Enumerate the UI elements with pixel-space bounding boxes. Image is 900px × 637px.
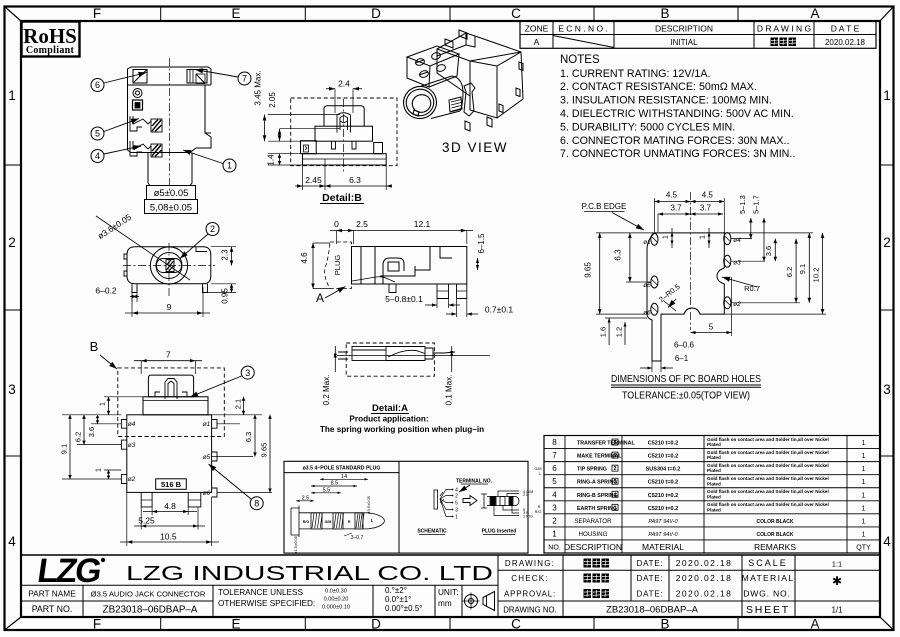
svg-text:PA9T 94V-0: PA9T 94V-0: [648, 532, 678, 538]
detail A spring drawing: [337, 347, 490, 361]
svg-text:L: L: [371, 518, 374, 523]
svg-text:ø2: ø2: [128, 476, 136, 483]
balloon 2 round view: [206, 223, 219, 236]
front view spring contact lower: [130, 141, 162, 157]
svg-text:mm: mm: [438, 599, 452, 608]
basic dim box dia 5: [147, 186, 196, 200]
view B left dim chain: [100, 396, 121, 398]
svg-text:D: D: [371, 617, 381, 632]
svg-text:A: A: [810, 617, 819, 632]
svg-text:L: L: [539, 472, 541, 476]
detail B centerline: [343, 99, 345, 172]
svg-text:DESCRIPTION: DESCRIPTION: [655, 23, 713, 33]
detail B mid body: [315, 126, 373, 141]
svg-text:R: R: [538, 505, 541, 509]
svg-text:8: 8: [552, 438, 557, 447]
plug drawing body: [291, 506, 384, 538]
schematic fork lines: [440, 490, 452, 517]
svg-text:G/M: G/M: [325, 520, 332, 524]
svg-text:PLUG: PLUG: [333, 255, 342, 276]
svg-text:1: 1: [862, 453, 866, 460]
schematic terminal dots and numbers: [452, 489, 454, 491]
svg-text:2. CONTACT RESISTANCE: 50m: 2. CONTACT RESISTANCE: 50mΩ MAX.: [560, 81, 757, 93]
svg-text:8: 8: [254, 498, 259, 508]
svg-text:3.6: 3.6: [87, 427, 96, 437]
svg-text:6.3: 6.3: [614, 249, 623, 261]
pcb board contour: [647, 233, 724, 361]
svg-text:APPROVAL:: APPROVAL:: [504, 590, 556, 599]
svg-text:2.45: 2.45: [305, 175, 322, 185]
svg-text:HOUSING: HOUSING: [579, 531, 608, 538]
svg-text:UNIT:: UNIT:: [438, 588, 458, 597]
svg-text:ø3: ø3: [733, 260, 741, 267]
side view spring detail inside: [352, 277, 395, 282]
svg-text:1: 1: [862, 440, 866, 447]
svg-text:C: C: [511, 617, 521, 632]
svg-text:5: 5: [455, 501, 458, 507]
front view centerline: [169, 58, 171, 192]
svg-text:1: 1: [862, 492, 866, 499]
svg-text:1: 1: [614, 505, 617, 511]
svg-text:1: 1: [8, 88, 16, 103]
svg-text:RING-A SPRING: RING-A SPRING: [577, 480, 617, 486]
front view top-right latch block: [187, 70, 207, 84]
svg-text:SCHEMATIC: SCHEMATIC: [417, 529, 447, 535]
svg-text:ø3.5 4–POLE STANDARD PLUG: ø3.5 4–POLE STANDARD PLUG: [303, 466, 381, 472]
svg-text:516 B: 516 B: [161, 480, 182, 489]
svg-text:2.05: 2.05: [268, 92, 277, 108]
svg-text:3. INSULATION RESISTANCE:: 3. INSULATION RESISTANCE: 100MΩ MIN.: [560, 95, 772, 107]
svg-text:7: 7: [552, 451, 557, 460]
svg-text:ø1.5±0.05: ø1.5±0.05: [293, 535, 298, 554]
svg-text:2020.02.18: 2020.02.18: [676, 558, 733, 568]
svg-text:5–1.3: 5–1.3: [738, 195, 747, 214]
svg-text:DATE:: DATE:: [637, 574, 664, 583]
svg-text:3: 3: [455, 508, 458, 514]
svg-text:1: 1: [98, 402, 107, 406]
view B dashed boundary: [118, 368, 225, 437]
title block frame: [21, 554, 880, 556]
svg-text:6: 6: [614, 453, 617, 459]
svg-text:The spring working position: The spring working position when plug–in: [320, 425, 484, 434]
svg-text:Plated: Plated: [707, 481, 721, 486]
parts list table: [544, 436, 880, 554]
round view right step: [196, 247, 207, 252]
svg-text:2.1: 2.1: [234, 399, 243, 409]
svg-text:DWG. NO.: DWG. NO.: [743, 589, 790, 599]
svg-text:ø5±0.05: ø5±0.05: [154, 188, 189, 199]
svg-text:1:1: 1:1: [832, 560, 842, 569]
svg-text:0.°±2°: 0.°±2°: [385, 586, 407, 595]
svg-text:ø3.5±0.05: ø3.5±0.05: [366, 495, 371, 514]
svg-text:E: E: [231, 617, 240, 632]
svg-text:B: B: [90, 339, 99, 354]
svg-text:C5210 t=0.2: C5210 t=0.2: [648, 493, 678, 499]
pcb pad 4: [724, 233, 731, 245]
svg-text:R: R: [348, 520, 351, 524]
view B bottom legs: [141, 492, 201, 507]
svg-text:C5210 t=0.2: C5210 t=0.2: [648, 506, 678, 512]
svg-text:ø6: ø6: [643, 310, 651, 317]
svg-text:4: 4: [95, 151, 100, 161]
pcb pad 2: [724, 297, 731, 309]
svg-text:1 R/G: 1 R/G: [523, 514, 533, 518]
svg-text:3D VIEW: 3D VIEW: [442, 140, 508, 155]
plug segment hatches: [312, 514, 322, 529]
round view legs: [132, 284, 208, 293]
plug spec box frame: [284, 461, 528, 553]
svg-text:1.6: 1.6: [599, 327, 608, 337]
svg-text:7: 7: [242, 74, 247, 84]
side view feet: [389, 284, 467, 299]
svg-text:Detail:A: Detail:A: [372, 403, 408, 414]
svg-text:1/1: 1/1: [831, 606, 843, 615]
zone tick marks top: [160, 7, 162, 22]
svg-text:TOLERANCE:±0.05(TOP VIEW): TOLERANCE:±0.05(TOP VIEW): [622, 391, 750, 402]
svg-text:9.1: 9.1: [798, 264, 807, 274]
svg-text:SCALE: SCALE: [748, 558, 788, 568]
svg-text:1: 1: [94, 468, 103, 472]
svg-text:6–1: 6–1: [675, 354, 689, 363]
svg-text:R/G: R/G: [535, 510, 542, 514]
svg-text:DRAWING:: DRAWING:: [505, 559, 555, 568]
3D legs: [465, 62, 523, 131]
view B top part: [148, 375, 193, 397]
corner diagonals: [5, 7, 22, 22]
svg-text:6–0.2: 6–0.2: [95, 286, 117, 296]
drafter names: [584, 559, 592, 568]
pcb bottom dim 5: [690, 314, 692, 336]
svg-text:3.45 Max.: 3.45 Max.: [254, 70, 263, 105]
svg-text:COLOR BLACK: COLOR BLACK: [757, 519, 794, 525]
svg-text:C5210 t=0.2: C5210 t=0.2: [648, 480, 678, 486]
svg-text:0.7±0.1: 0.7±0.1: [485, 305, 514, 315]
pcb centerline vertical: [690, 192, 692, 330]
svg-text:1: 1: [227, 161, 232, 171]
svg-text:D: D: [371, 6, 381, 21]
svg-text:ø2: ø2: [733, 301, 741, 308]
svg-text:Plated: Plated: [707, 494, 721, 499]
svg-text:5,08±0.05: 5,08±0.05: [150, 203, 192, 214]
svg-text:1: 1: [862, 505, 866, 512]
svg-text:A: A: [534, 37, 540, 47]
detail B left block: [301, 141, 317, 154]
balloon 1: [223, 159, 236, 172]
svg-text:Plated: Plated: [707, 468, 721, 473]
pcb bottom-left slot dims 1.6 1.2: [605, 317, 647, 319]
schematic contact bar: [434, 490, 438, 509]
svg-text:3: 3: [552, 503, 557, 512]
pcb left dims 9.65 6.3: [596, 232, 654, 234]
svg-text:3.7: 3.7: [670, 204, 682, 213]
svg-text:MATERIAL: MATERIAL: [642, 542, 684, 552]
detail A right dim 0.1: [451, 346, 453, 372]
svg-text:7: 7: [166, 350, 171, 360]
svg-text:6. CONNECTOR MATING FORCES:: 6. CONNECTOR MATING FORCES: 30N MAX..: [560, 135, 789, 147]
plug inserted hatches: [491, 497, 513, 505]
detail A dashed boundary: [346, 343, 434, 376]
svg-text:4.8: 4.8: [164, 501, 176, 511]
svg-text:0.0±0.30: 0.0±0.30: [325, 589, 347, 595]
RoHS compliant logo box: [22, 22, 80, 57]
pcb pad 5: [651, 276, 658, 288]
svg-text:6.2: 6.2: [74, 432, 83, 442]
svg-text:DIMENSIONS OF PC BOARD HOL: DIMENSIONS OF PC BOARD HOLES: [611, 374, 761, 385]
svg-text:Gold flash on contact area: Gold flash on contact area and Solder ti…: [707, 450, 829, 455]
svg-text:2: 2: [614, 466, 617, 472]
svg-text:5–1.7: 5–1.7: [751, 195, 760, 214]
svg-text:TRANSFER TERMINAL: TRANSFER TERMINAL: [577, 441, 635, 447]
svg-text:9.65: 9.65: [584, 262, 593, 278]
svg-text:ø4: ø4: [128, 421, 136, 428]
svg-text:Plated: Plated: [707, 442, 721, 447]
svg-text:LZG: LZG: [35, 552, 103, 590]
svg-text:2.4: 2.4: [338, 79, 350, 89]
svg-text:7. CONNECTOR UNMATING FORCE: 7. CONNECTOR UNMATING FORCES: 3N MIN..: [560, 148, 795, 160]
front view spring contact upper hatch: [152, 120, 162, 132]
svg-text:D A T E: D A T E: [831, 23, 860, 33]
svg-text:ZB23018–06DBAP–A: ZB23018–06DBAP–A: [103, 605, 198, 616]
svg-text:12.1: 12.1: [414, 219, 431, 229]
svg-text:B: B: [660, 6, 669, 21]
svg-text:C5210 t=0.2: C5210 t=0.2: [648, 441, 678, 447]
pcb dims 6-0.6 6-1: [651, 361, 653, 372]
view B right pins: [212, 420, 217, 498]
svg-text:A: A: [316, 291, 324, 305]
round view inner pill: [157, 259, 182, 273]
svg-text:C5210 t=0.2: C5210 t=0.2: [648, 454, 678, 460]
svg-text:ø4: ø4: [733, 237, 741, 244]
part name row: [82, 585, 84, 617]
svg-text:PART NAME: PART NAME: [28, 589, 76, 599]
svg-text:5: 5: [614, 440, 617, 446]
detail B dashed boundary: [291, 98, 397, 166]
balloon 3 view B: [241, 366, 254, 379]
view B mid flange: [143, 397, 208, 415]
detail A left dim 0.2: [334, 346, 336, 372]
svg-text:0.2 Max.: 0.2 Max.: [322, 375, 331, 406]
svg-text:MATERIAL: MATERIAL: [742, 573, 795, 583]
svg-text:6.3: 6.3: [349, 175, 361, 185]
detail B center spring insert: [337, 113, 351, 133]
round view centerlines: [168, 243, 170, 296]
big arrow: [463, 496, 477, 506]
svg-text:0.0°±1°: 0.0°±1°: [385, 595, 411, 604]
svg-text:3: 3: [883, 382, 891, 397]
svg-text:6: 6: [95, 80, 100, 90]
zone tick marks left: [5, 164, 22, 166]
svg-text:1: 1: [552, 529, 557, 538]
balloon 7: [238, 72, 251, 85]
svg-text:DATE:: DATE:: [637, 559, 664, 568]
svg-text:5. DURABILITY: 5000 CYCLES: 5. DURABILITY: 5000 CYCLES MIN.: [560, 121, 735, 133]
svg-text:Gold flash on contact area: Gold flash on contact area and Solder ti…: [707, 476, 829, 481]
svg-text:F: F: [93, 617, 101, 632]
svg-text:ø5: ø5: [203, 454, 211, 461]
svg-text:PART NO.: PART NO.: [32, 604, 73, 614]
svg-text:Plated: Plated: [707, 455, 721, 460]
pcb pad 1: [651, 233, 658, 245]
svg-text:D R A W I N G: D R A W I N G: [757, 23, 811, 33]
round view inner circle: [156, 253, 182, 279]
svg-text:4: 4: [614, 492, 617, 498]
svg-text:Ø3.5 AUDIO JACK CONNECTOR: Ø3.5 AUDIO JACK CONNECTOR: [91, 590, 206, 599]
LZG logo: [35, 552, 103, 590]
svg-text:1: 1: [862, 466, 866, 473]
svg-text:Gold flash on contact area: Gold flash on contact area and Solder ti…: [707, 502, 829, 507]
svg-text:E: E: [231, 6, 240, 21]
svg-text:Plated: Plated: [707, 507, 721, 512]
svg-text:1: 1: [862, 531, 866, 538]
svg-text:4. DIELECTRIC WITHSTANDING:: 4. DIELECTRIC WITHSTANDING: 500V AC MIN.: [560, 108, 794, 120]
svg-text:4: 4: [8, 534, 16, 549]
dim 9 bottom: [131, 297, 133, 318]
svg-text:4: 4: [883, 534, 891, 549]
svg-text:3.7: 3.7: [700, 204, 712, 213]
round view outer circle: [150, 247, 187, 284]
svg-text:DESCRIPTION: DESCRIPTION: [564, 542, 622, 552]
balloon 4: [91, 150, 104, 163]
svg-text:✱: ✱: [832, 574, 842, 588]
svg-text:A: A: [810, 6, 819, 21]
svg-text:ø1: ø1: [203, 421, 211, 428]
svg-text:1.2: 1.2: [615, 327, 624, 337]
svg-text:Gold flash on contact area: Gold flash on contact area and Solder ti…: [707, 437, 829, 442]
svg-text:9.65: 9.65: [260, 443, 269, 458]
view B right dim chain: [208, 414, 262, 416]
svg-text:2: 2: [552, 516, 557, 525]
svg-text:ZONE: ZONE: [525, 23, 549, 33]
svg-text:0.00±0.20: 0.00±0.20: [324, 597, 349, 603]
side view plug dashed outline: [325, 242, 352, 289]
front view circled detent: [133, 89, 142, 98]
svg-text:NO.: NO.: [548, 545, 561, 552]
svg-text:2: 2: [883, 235, 891, 250]
svg-text:OTHERWISE SPECIFIED:: OTHERWISE SPECIFIED:: [218, 599, 315, 608]
svg-text:R/O: R/O: [303, 520, 310, 524]
svg-text:5: 5: [709, 323, 714, 332]
svg-text:INITIAL: INITIAL: [670, 38, 698, 47]
svg-text:2020.02.18: 2020.02.18: [676, 573, 733, 583]
svg-text:G/M: G/M: [534, 467, 541, 471]
svg-text:ø1: ø1: [643, 239, 651, 246]
svg-text:P.C.B EDGE: P.C.B EDGE: [582, 202, 627, 211]
3D barrel ring: [400, 83, 440, 122]
svg-text:2020.02.18: 2020.02.18: [825, 38, 866, 47]
svg-text:0.000±0.10: 0.000±0.10: [322, 605, 350, 611]
plug inserted terminal leads: [494, 491, 519, 516]
svg-text:1: 1: [663, 235, 670, 239]
svg-text:1: 1: [883, 88, 891, 103]
svg-text:CHECK:: CHECK:: [511, 574, 548, 583]
svg-text:0.1 Max.: 0.1 Max.: [445, 375, 454, 406]
svg-text:DRAWING NO.: DRAWING NO.: [503, 606, 556, 615]
svg-text:REMARKS: REMARKS: [754, 542, 796, 552]
svg-text:2.5: 2.5: [302, 495, 310, 501]
svg-text:QTY: QTY: [856, 545, 871, 552]
svg-text:ø3: ø3: [128, 442, 136, 449]
svg-text:Product application:: Product application:: [349, 415, 428, 424]
detail B right block: [374, 143, 383, 154]
drawing/check/approval rows: [562, 555, 564, 617]
plug inserted drawing: [481, 494, 519, 508]
svg-text:2.5: 2.5: [356, 219, 368, 229]
svg-text:SHEET: SHEET: [746, 604, 790, 616]
round view left stubs: [124, 254, 127, 276]
svg-text:10.5: 10.5: [160, 532, 177, 542]
svg-text:PLUG Inserted: PLUG Inserted: [482, 529, 517, 535]
svg-text:1. CURRENT RATING: 12V/1A.: 1. CURRENT RATING: 12V/1A.: [560, 68, 710, 80]
svg-text:Gold flash on contact area: Gold flash on contact area and Solder ti…: [707, 489, 829, 494]
detail B prongs: [332, 141, 357, 149]
pcb pad 3: [724, 255, 731, 267]
svg-text:B: B: [660, 617, 669, 632]
front view spring contact lower hatch: [152, 145, 162, 157]
pcb pad offset dims 1 1: [671, 228, 673, 248]
svg-text:5: 5: [552, 477, 557, 486]
svg-text:6: 6: [552, 464, 557, 473]
svg-text:2.3: 2.3: [221, 249, 230, 261]
view B main body: [127, 415, 212, 493]
svg-text:3–0.7: 3–0.7: [351, 535, 364, 541]
svg-text:0: 0: [334, 219, 339, 229]
svg-text:LZG INDUSTRIAL CO. LTD: LZG INDUSTRIAL CO. LTD: [126, 563, 493, 585]
balloon 6: [91, 79, 104, 92]
svg-text:PA9T 94V-0: PA9T 94V-0: [648, 519, 678, 525]
svg-text:3: 3: [614, 479, 617, 485]
balloon 5: [91, 127, 104, 140]
svg-text:3: 3: [245, 368, 250, 378]
round view center contact hatch: [166, 260, 174, 272]
svg-text:ø5: ø5: [643, 282, 651, 289]
svg-text:9: 9: [167, 302, 172, 312]
svg-text:COLOR BLACK: COLOR BLACK: [757, 532, 794, 538]
svg-text:ZB23018–06DBAP–A: ZB23018–06DBAP–A: [606, 605, 699, 616]
svg-text:5.5: 5.5: [323, 487, 331, 493]
svg-text:EARTH SPRING: EARTH SPRING: [577, 506, 617, 512]
detail B bottom dims 2.45 / 6.3: [302, 165, 304, 190]
svg-text:10.2: 10.2: [812, 268, 821, 283]
view B left pins: [121, 420, 126, 484]
svg-text:6.2: 6.2: [785, 267, 794, 277]
svg-text:F: F: [93, 6, 101, 21]
svg-text:Gold flash on contact area: Gold flash on contact area and Solder ti…: [707, 463, 829, 468]
front view main body outline: [128, 67, 212, 153]
svg-text:4: 4: [552, 490, 557, 499]
svg-text:E C N . N O .: E C N . N O .: [558, 23, 608, 33]
front view spring contact upper: [130, 116, 162, 132]
svg-text:NOTES: NOTES: [560, 54, 600, 66]
revision table: [520, 21, 876, 48]
third angle projection symbol: [465, 595, 478, 608]
svg-text:SUS304 t=0.2: SUS304 t=0.2: [646, 467, 681, 473]
svg-text:0.00°±0.5°: 0.00°±0.5°: [385, 604, 422, 613]
front view square detent: [133, 100, 143, 110]
3D lever and latch: [449, 83, 475, 116]
schematic check mark: [440, 492, 444, 503]
svg-text:2: 2: [455, 494, 458, 500]
svg-text:2: 2: [8, 235, 16, 250]
svg-text:3: 3: [8, 382, 16, 397]
svg-text:6–1.5: 6–1.5: [477, 233, 486, 254]
svg-text:14: 14: [341, 474, 347, 480]
svg-text:2: 2: [210, 224, 215, 234]
svg-text:5: 5: [95, 129, 100, 139]
side view body outline: [352, 247, 467, 285]
zone tick marks right: [880, 164, 894, 166]
dim 0.95 right: [208, 292, 237, 294]
view B bottom dims: [147, 492, 149, 515]
